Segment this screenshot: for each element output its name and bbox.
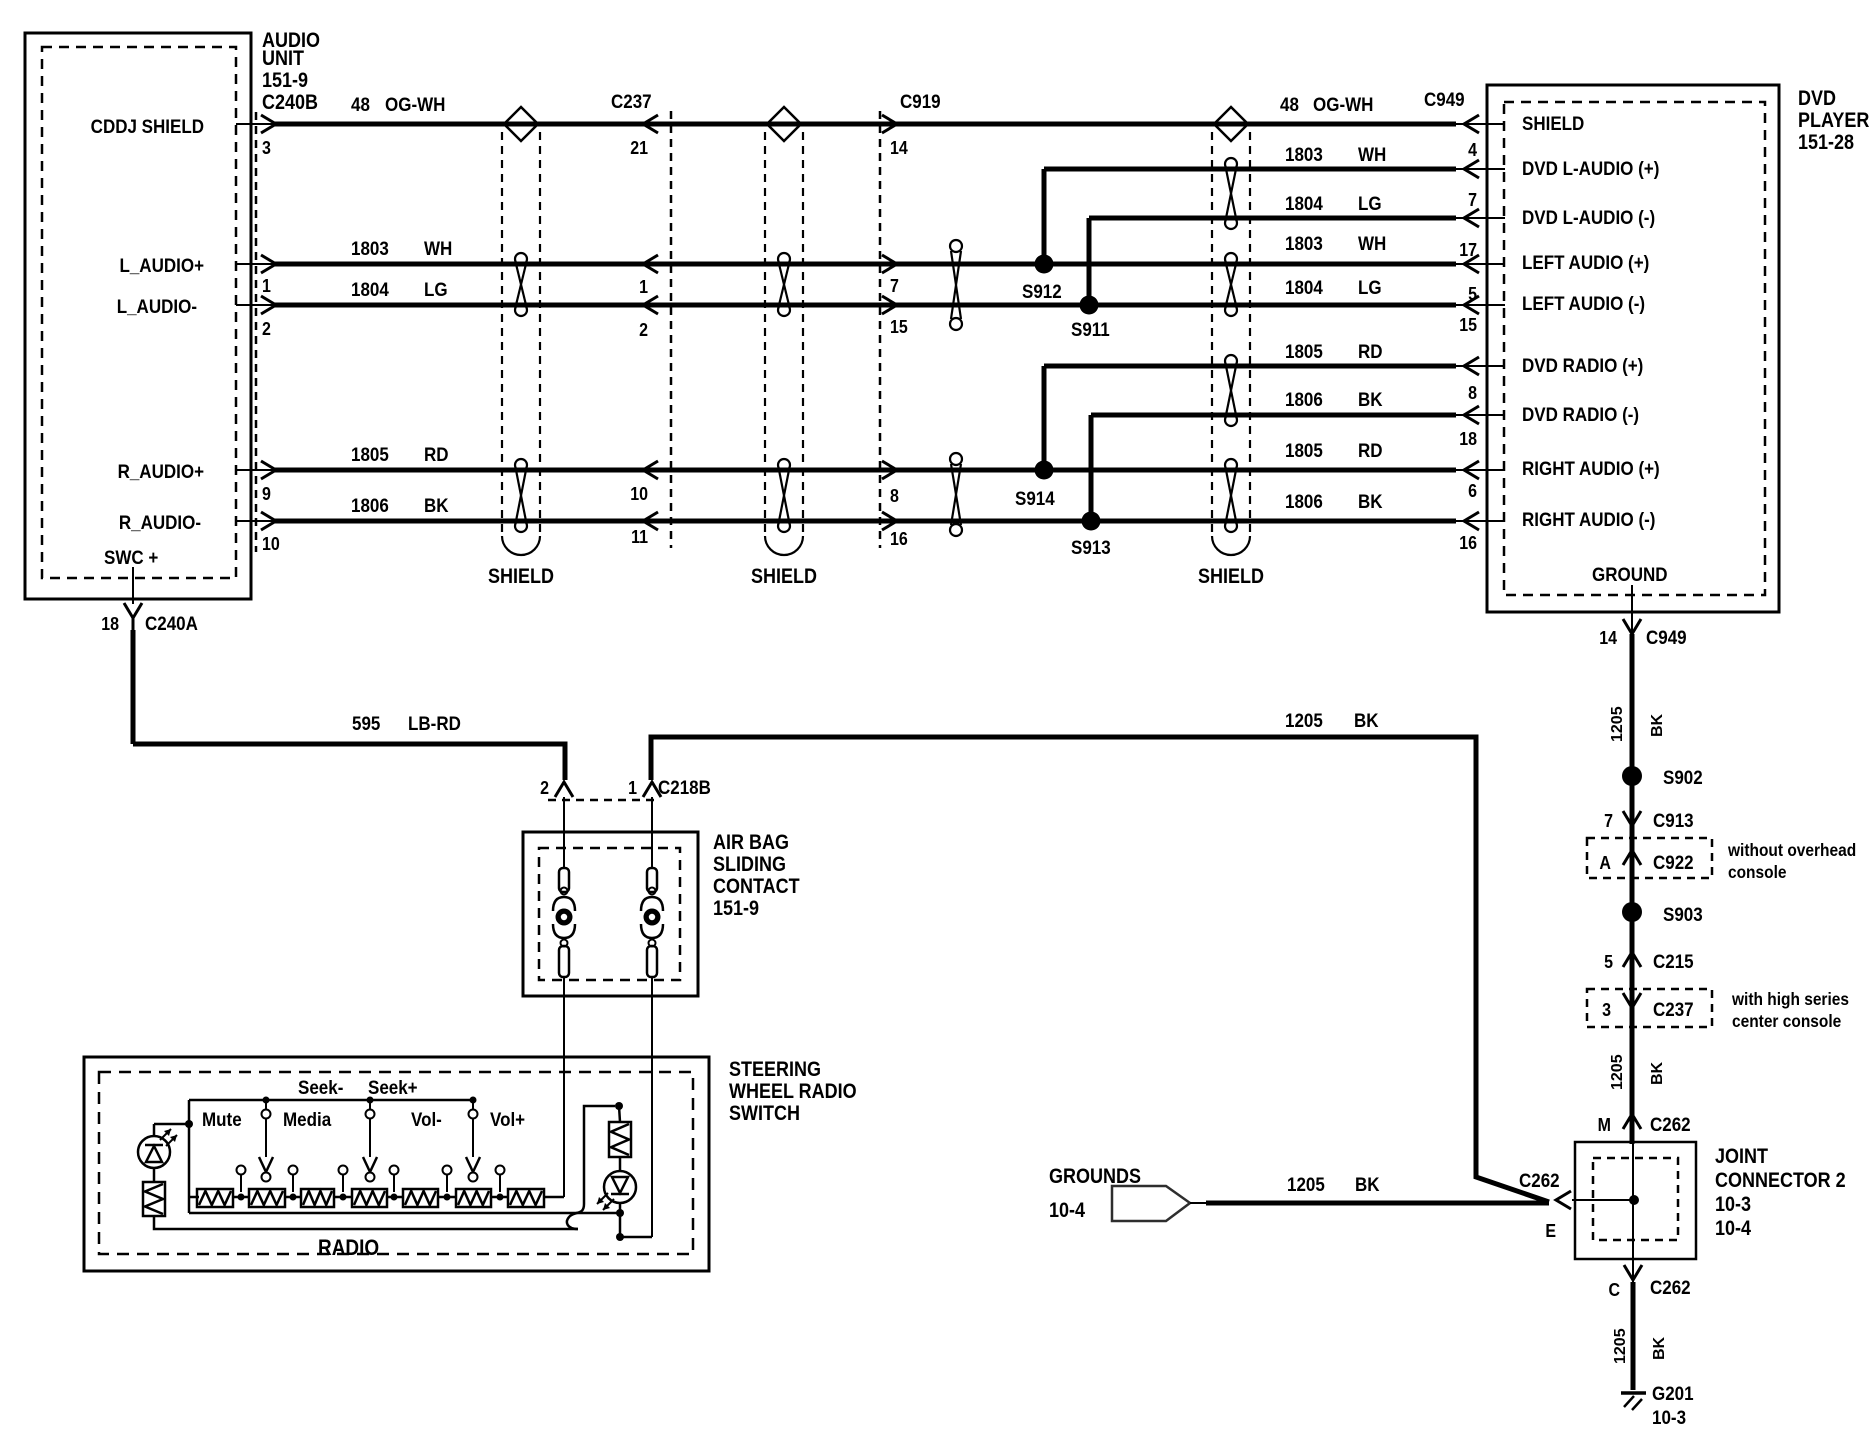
splice S902 (1622, 766, 1703, 788)
svg-text:Media: Media (283, 1108, 332, 1130)
shield 2 twisted pair y=264/305 (778, 253, 790, 316)
resistor left vertical (143, 1182, 165, 1216)
svg-text:18: 18 (101, 613, 119, 634)
connector C949 arrow y=264 (1464, 255, 1479, 273)
svg-text:1: 1 (262, 275, 271, 296)
svg-text:1804: 1804 (351, 278, 390, 300)
svg-text:C: C (1608, 1279, 1620, 1300)
svg-text:1803: 1803 (1285, 143, 1323, 165)
svg-text:16: 16 (1459, 532, 1477, 553)
resistor R6 (ladder) (456, 1189, 491, 1207)
ladder right end wire (544, 1196, 564, 1199)
svg-text:7: 7 (1604, 810, 1613, 831)
svg-text:48: 48 (1280, 93, 1299, 115)
label 1804 LG right (DVD L-AUDIO -) (1285, 192, 1382, 214)
wire stub into DVD player y=521 (1454, 520, 1505, 522)
svg-text:C240A: C240A (145, 612, 198, 634)
svg-text:LG: LG (1358, 276, 1382, 298)
wire 48 OG-WH (audio unit pin 3 to DVD shield) (274, 122, 1456, 127)
joint connector E branch wire (1572, 1199, 1634, 1201)
wire 1205 BK (C949 to C262) (1630, 634, 1635, 1144)
connector C237 pin numbers (630, 137, 648, 547)
label 1805 RD left (351, 443, 449, 465)
wire stub into DVD player y=305 (1454, 304, 1505, 306)
svg-text:1205: 1205 (1612, 1328, 1629, 1364)
switch wiper contact (Mute/Media) (259, 1097, 273, 1182)
air bag sliding contact title (713, 831, 800, 921)
label 1803 WH left (351, 237, 452, 259)
wire 595 LB-RD horizontal (133, 744, 565, 780)
switch wiper contact (Vol) (466, 1097, 480, 1182)
svg-text:10: 10 (262, 533, 280, 554)
label 595 LB-RD (352, 712, 461, 734)
svg-text:5: 5 (1604, 951, 1613, 972)
svg-text:151-9: 151-9 (713, 897, 759, 921)
LED right (illumination) (597, 1171, 636, 1210)
svg-text:1805: 1805 (351, 443, 389, 465)
svg-text:10-4: 10-4 (1715, 1217, 1751, 1241)
shield 3 dashed stadium outline (1212, 132, 1250, 555)
wire stub into DVD player y=264 (1454, 263, 1505, 265)
connector C218B dashed line (548, 799, 654, 802)
resistor R3 (ladder) (301, 1189, 334, 1207)
svg-text:8: 8 (890, 485, 899, 506)
svg-text:SLIDING: SLIDING (713, 853, 786, 877)
svg-text:SWITCH: SWITCH (729, 1102, 800, 1126)
svg-text:1: 1 (639, 276, 648, 297)
svg-text:7: 7 (1468, 189, 1477, 210)
svg-text:2: 2 (540, 777, 549, 798)
svg-text:1: 1 (628, 777, 637, 798)
wire air bag to radio switch left (563, 977, 565, 1197)
svg-text:BK: BK (1358, 490, 1383, 512)
connector C262-E labels (1519, 1169, 1560, 1241)
connector C949 name (1424, 88, 1465, 110)
label 1804 LG right (LEFT AUDIO -) (1285, 276, 1382, 298)
svg-text:LG: LG (424, 278, 448, 300)
svg-text:RADIO: RADIO (318, 1236, 379, 1261)
svg-text:LG: LG (1358, 192, 1382, 214)
wire 1803 WH (DVD L-AUDIO +) (1044, 167, 1456, 172)
svg-text:OG-WH: OG-WH (1313, 93, 1373, 115)
svg-text:1806: 1806 (351, 494, 389, 516)
connector C922 labels (1599, 851, 1693, 873)
svg-text:1803: 1803 (351, 237, 389, 259)
svg-text:18: 18 (1459, 428, 1477, 449)
svg-text:11: 11 (631, 526, 648, 547)
connector C237 arrow y=124 (643, 115, 658, 133)
connector C949 arrow y=366 (1464, 357, 1479, 375)
joint connector 2 box (1575, 1142, 1696, 1259)
joint connector internal wire (1629, 1144, 1639, 1259)
svg-text:S903: S903 (1663, 903, 1703, 925)
wire C218B pin2 to air bag contact (563, 797, 565, 868)
twisted pair (right audio pair) at x=956 (950, 453, 962, 536)
audio unit title text (262, 29, 320, 115)
connector C237-2 labels (1602, 998, 1694, 1020)
connector C237 name (611, 90, 652, 112)
svg-text:S902: S902 (1663, 766, 1703, 788)
svg-text:C922: C922 (1653, 851, 1694, 873)
shield 3 twisted pair y=264/305 (1225, 253, 1237, 316)
svg-text:2: 2 (639, 319, 648, 340)
connector C240B arrow y=521 (261, 512, 276, 530)
shield 3 twisted pair y=169/218 (1225, 158, 1237, 229)
splice S913 (1071, 512, 1111, 559)
resistor R5 (ladder) (403, 1189, 438, 1207)
steering wheel radio switch box (84, 1057, 709, 1271)
svg-text:C262: C262 (1650, 1113, 1691, 1135)
svg-text:BK: BK (424, 494, 449, 516)
connector C919 arrow y=470 (882, 461, 897, 479)
wire hop to right branch top (567, 1106, 615, 1229)
svg-text:GROUNDS: GROUNDS (1049, 1165, 1141, 1189)
svg-text:48: 48 (351, 93, 370, 115)
shield 1 diamond symbol (504, 107, 538, 141)
label 1804 LG left (351, 278, 448, 300)
SWC+ lead inside audio unit (132, 567, 134, 604)
svg-text:1805: 1805 (1285, 340, 1323, 362)
svg-text:7: 7 (890, 275, 899, 296)
switch wiper contact (Seek) (363, 1097, 377, 1182)
svg-text:DVD: DVD (1798, 87, 1836, 111)
wire GROUNDS to C262 (1190, 1202, 1549, 1204)
shield 1 twisted pair y=470/521 (515, 459, 527, 532)
right branch top junction (615, 1102, 623, 1122)
svg-text:C240B: C240B (262, 91, 318, 115)
svg-text:JOINT: JOINT (1715, 1145, 1768, 1169)
svg-text:BK: BK (1649, 1061, 1666, 1085)
svg-text:OG-WH: OG-WH (385, 93, 445, 115)
label 1806 BK left (351, 494, 449, 516)
wire 1803 WH (L_AUDIO+) (274, 262, 1456, 267)
connector C919 name (900, 90, 941, 112)
label 48 OG-WH left (351, 93, 445, 115)
resistor R2 (ladder) (249, 1189, 285, 1207)
svg-text:C218B: C218B (658, 776, 711, 798)
svg-text:SHIELD: SHIELD (751, 565, 817, 589)
label 1806 BK right (RIGHT AUDIO -) (1285, 490, 1383, 512)
mute tap junction (154, 1120, 193, 1136)
svg-text:BK: BK (1354, 709, 1379, 731)
ladder junction 6 wire + tap contact (491, 1166, 508, 1201)
svg-text:14: 14 (890, 137, 908, 158)
svg-text:21: 21 (630, 137, 648, 158)
svg-text:center console: center console (1732, 1011, 1841, 1031)
DVD ground lead (1631, 585, 1633, 612)
splice S912 (1022, 255, 1062, 303)
svg-text:SHIELD: SHIELD (488, 565, 554, 589)
svg-text:3: 3 (1602, 999, 1611, 1020)
wire resistor to LED right (619, 1157, 622, 1171)
svg-text:RD: RD (1358, 340, 1383, 362)
connector C949 pin numbers (1459, 139, 1477, 553)
connector C949 arrow y=521 (1464, 512, 1479, 530)
wire LED right bottom (616, 1203, 624, 1241)
splice S913 riser wire (1089, 415, 1094, 521)
note with high series center console (1731, 989, 1849, 1031)
svg-text:151-9: 151-9 (262, 69, 308, 93)
audio unit box (25, 33, 251, 599)
svg-text:C262: C262 (1650, 1276, 1691, 1298)
shield 1 dashed stadium outline (502, 132, 540, 555)
connector C237 arrow y=521 (643, 512, 658, 530)
svg-text:1804: 1804 (1285, 276, 1324, 298)
splice S911 (1071, 296, 1110, 341)
wire stub into DVD player y=470 (1454, 469, 1505, 471)
sliding contact left (553, 868, 575, 977)
connector C237 arrow y=305 (643, 296, 658, 314)
connector C919 dashed line (879, 111, 882, 548)
svg-text:8: 8 (1468, 382, 1477, 403)
svg-text:BK: BK (1358, 388, 1383, 410)
shield 1 label (488, 565, 554, 589)
svg-text:STEERING: STEERING (729, 1058, 821, 1082)
svg-text:RD: RD (424, 443, 449, 465)
ladder junction 4 wire + tap contact (387, 1166, 403, 1201)
svg-text:3: 3 (262, 137, 271, 158)
svg-text:151-28: 151-28 (1798, 131, 1854, 155)
connector C949 arrow y=169 (1464, 160, 1479, 178)
svg-text:WH: WH (1358, 232, 1386, 254)
svg-text:UNIT: UNIT (262, 47, 304, 71)
wire stub into audio unit y=305 (236, 304, 276, 306)
svg-text:1805: 1805 (1285, 439, 1323, 461)
svg-text:GROUND: GROUND (1592, 563, 1668, 585)
resistor R7 (ladder) (508, 1189, 544, 1207)
ladder junction 5 wire + tap contact (438, 1166, 456, 1201)
steering wheel radio switch title (729, 1058, 857, 1126)
svg-text:DVD L-AUDIO (-): DVD L-AUDIO (-) (1522, 206, 1655, 228)
wire 1804 LG (L_AUDIO-) (274, 303, 1456, 308)
svg-text:RD: RD (1358, 439, 1383, 461)
svg-text:LB-RD: LB-RD (408, 712, 461, 734)
resistor R1 (ladder) (197, 1189, 233, 1207)
shield 3 twisted pair y=366/415 (1225, 355, 1237, 426)
connector C913 labels (1604, 809, 1694, 831)
shield 3 label (1198, 565, 1264, 589)
wire 1805 RD (R_AUDIO+) (274, 468, 1456, 473)
connector C949 bottom arrow (1623, 612, 1641, 634)
svg-text:1205: 1205 (1609, 1054, 1626, 1090)
connector C218B labels (540, 776, 711, 798)
svg-text:10-3: 10-3 (1715, 1193, 1751, 1217)
svg-text:Mute: Mute (202, 1108, 242, 1130)
connector C919 pin numbers (890, 137, 908, 549)
switch ladder left stub (189, 1196, 199, 1199)
label 1803 WH right (DVD L-AUDIO +) (1285, 143, 1386, 165)
connector C949 arrow y=415 (1464, 406, 1479, 424)
svg-text:16: 16 (890, 528, 908, 549)
connector C949 arrow y=470 (1464, 461, 1479, 479)
connector C215 labels (1604, 950, 1694, 972)
connector C240B arrow y=305 (261, 296, 276, 314)
svg-text:WH: WH (1358, 143, 1386, 165)
connector C262-C arrow (1624, 1259, 1642, 1282)
svg-text:C913: C913 (1653, 809, 1694, 831)
svg-text:CDDJ SHIELD: CDDJ SHIELD (91, 115, 204, 137)
wire LED to resistor left (153, 1168, 156, 1182)
wire 1205 BK (to joint connector) (651, 737, 1549, 1202)
svg-text:1205: 1205 (1287, 1173, 1325, 1195)
connector C919 arrow y=124 (882, 115, 897, 133)
GROUNDS off-page reference (1049, 1165, 1190, 1223)
svg-text:S914: S914 (1015, 487, 1055, 509)
resistor R4 (ladder) (352, 1189, 387, 1207)
twisted pair (left audio pair) at x=956 (950, 240, 962, 330)
joint connector 2 title (1715, 1145, 1846, 1241)
resistor right vertical (609, 1122, 631, 1157)
wire stub into audio unit y=124 (236, 123, 276, 125)
note without overhead console (1727, 840, 1856, 882)
LED left (illumination) (138, 1129, 177, 1168)
wire air bag to radio switch right (651, 977, 653, 1237)
connector C237-2 arrow (1623, 993, 1641, 1008)
connector C919 arrow y=521 (882, 512, 897, 530)
switch top rail (189, 1099, 473, 1102)
splice S912 riser wire (1042, 169, 1047, 264)
label 1205 BK vertical mid (1609, 1054, 1666, 1090)
shield 2 twisted pair y=470/521 (778, 459, 790, 532)
connector C949 arrow y=218 (1464, 209, 1479, 227)
svg-text:15: 15 (890, 316, 908, 337)
svg-text:Seek-: Seek- (298, 1076, 343, 1098)
svg-text:S913: S913 (1071, 536, 1111, 558)
connector C240B arrow y=470 (261, 461, 276, 479)
wire stub into DVD player y=218 (1454, 217, 1505, 219)
svg-text:A: A (1599, 852, 1611, 873)
connector C922 dashed box (without overhead console) (1587, 838, 1712, 878)
label 1805 RD right (DVD RADIO +) (1285, 340, 1383, 362)
wire 1806 BK (R_AUDIO-) (274, 519, 1456, 524)
svg-text:with high series: with high series (1731, 989, 1849, 1009)
connector C240B pin numbers (262, 137, 280, 554)
shield 2 diamond symbol (767, 107, 801, 141)
ladder junction 1 wire + tap contact (233, 1166, 249, 1201)
connector C913 arrow (1623, 811, 1641, 826)
svg-text:1806: 1806 (1285, 490, 1323, 512)
svg-text:DVD L-AUDIO (+): DVD L-AUDIO (+) (1522, 157, 1659, 179)
wire stub into audio unit y=521 (236, 520, 276, 522)
svg-text:595: 595 (352, 712, 380, 734)
svg-text:CONTACT: CONTACT (713, 875, 800, 899)
connector C218B pin 2 arrow (555, 782, 573, 797)
svg-text:1803: 1803 (1285, 232, 1323, 254)
svg-text:DVD RADIO (+): DVD RADIO (+) (1522, 354, 1643, 376)
shield 3 twisted pair y=470/521 (1225, 459, 1237, 532)
connector C240B arrow y=124 (261, 115, 276, 133)
sliding contact right (641, 868, 663, 977)
connector C262-M arrow (1623, 1114, 1641, 1129)
splice S914 riser wire (1042, 366, 1047, 470)
label 1205 BK top (1285, 709, 1379, 731)
wire stub into DVD player y=366 (1454, 365, 1505, 367)
svg-text:2: 2 (262, 318, 271, 339)
connector C949 arrow y=124 (1464, 115, 1479, 133)
connector C919 arrow y=305 (882, 296, 897, 314)
splice S914 (1015, 461, 1055, 510)
DVD player box (1487, 85, 1779, 612)
svg-text:L_AUDIO-: L_AUDIO- (117, 295, 197, 317)
svg-text:SHIELD: SHIELD (1198, 565, 1264, 589)
label 1205 BK vertical bottom (1612, 1328, 1668, 1364)
svg-text:15: 15 (1459, 314, 1477, 335)
svg-text:BK: BK (1355, 1173, 1380, 1195)
svg-text:C237: C237 (1653, 998, 1694, 1020)
DVD player pin labels (1522, 112, 1668, 585)
wire 1205 BK (C262 to G201) (1631, 1282, 1636, 1390)
switch frame left edge (188, 1100, 191, 1213)
connector C262-E arrow (1556, 1191, 1571, 1209)
shield 2 label (751, 565, 817, 589)
svg-text:S911: S911 (1071, 318, 1110, 340)
svg-text:1804: 1804 (1285, 192, 1324, 214)
svg-text:Vol+: Vol+ (490, 1108, 525, 1130)
connector C237 dashed box (with high series center console) (1587, 989, 1712, 1027)
svg-text:console: console (1728, 862, 1787, 882)
svg-text:SHIELD: SHIELD (1522, 112, 1584, 134)
air bag sliding contact box (523, 832, 698, 996)
svg-text:M: M (1598, 1114, 1611, 1135)
svg-text:LEFT AUDIO (+): LEFT AUDIO (+) (1522, 251, 1649, 273)
svg-text:E: E (1545, 1220, 1556, 1241)
svg-text:without overhead: without overhead (1727, 840, 1856, 860)
svg-text:6: 6 (1468, 480, 1477, 501)
wire left branch bottom (154, 1216, 578, 1229)
splice S911 riser wire (1087, 218, 1092, 305)
wire 595 LB-RD vertical (131, 630, 136, 744)
wire stub into DVD player y=415 (1454, 414, 1505, 416)
wire C218B pin1 to air bag contact (651, 797, 653, 868)
label 1205 BK vertical top (1609, 706, 1666, 742)
svg-text:RIGHT AUDIO (+): RIGHT AUDIO (+) (1522, 457, 1660, 479)
wire stub into audio unit y=264 (236, 263, 276, 265)
svg-text:4: 4 (1468, 139, 1477, 160)
connector C262-M labels (1598, 1113, 1691, 1135)
svg-text:AIR BAG: AIR BAG (713, 831, 789, 855)
svg-text:WHEEL RADIO: WHEEL RADIO (729, 1080, 857, 1104)
connector C240A arrow (124, 603, 142, 632)
connector C215 arrow (1623, 952, 1641, 967)
wire stub into DVD player y=169 (1454, 168, 1505, 170)
ground G201 (1621, 1382, 1694, 1428)
ladder junction 3 wire + tap contact (334, 1166, 352, 1201)
connector C240A labels (101, 612, 198, 634)
wire 1805 RD (DVD RADIO +) (1044, 364, 1456, 369)
svg-text:PLAYER: PLAYER (1798, 109, 1869, 133)
svg-text:1205: 1205 (1285, 709, 1323, 731)
svg-text:C949: C949 (1646, 626, 1687, 648)
svg-text:Seek+: Seek+ (368, 1076, 418, 1098)
shield 1 twisted pair y=264/305 (515, 253, 527, 316)
shield 2 dashed stadium outline (765, 132, 803, 555)
svg-text:LEFT AUDIO (-): LEFT AUDIO (-) (1522, 292, 1645, 314)
svg-text:1205: 1205 (1609, 706, 1626, 742)
connector C949 bottom labels (1599, 626, 1686, 648)
label 1806 BK right (DVD RADIO -) (1285, 388, 1383, 410)
ladder junction 2 wire + tap contact (285, 1166, 301, 1201)
connector C237 dashed line (670, 111, 673, 548)
svg-text:S912: S912 (1022, 280, 1062, 302)
connector C922 arrow (1623, 850, 1641, 865)
svg-text:C237: C237 (611, 90, 652, 112)
radio label (318, 1236, 379, 1261)
connector C949 arrow y=305 (1464, 296, 1479, 314)
svg-text:G201: G201 (1652, 1382, 1694, 1404)
DVD player title text (1798, 87, 1869, 155)
svg-text:C262: C262 (1519, 1169, 1560, 1191)
svg-text:C215: C215 (1653, 950, 1694, 972)
